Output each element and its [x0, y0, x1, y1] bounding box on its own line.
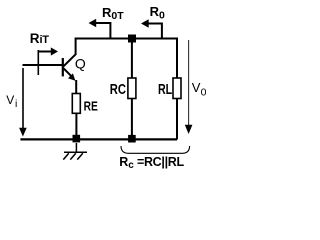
svg-text:RiT: RiT	[30, 31, 49, 46]
ground	[63, 143, 87, 160]
wire RL bottom	[176, 99, 178, 140]
arrow R0	[141, 19, 162, 38]
arrow Vi	[19, 68, 27, 137]
junction RC-ground node	[128, 135, 136, 143]
brace Rc span	[121, 146, 190, 153]
wire ground rail	[20, 138, 177, 140]
resistor RE	[72, 94, 80, 114]
resistor RC	[128, 78, 136, 99]
svg-text:RC: RC	[110, 82, 127, 98]
transistor Q1 emitter	[64, 68, 74, 78]
transistor Q1 emitter arrowhead	[68, 73, 75, 80]
wire RC bottom	[131, 99, 133, 140]
transistor Q1 collector + top rail	[64, 39, 178, 79]
node RiT measurement tick	[37, 50, 39, 75]
wire emitter to RE	[75, 80, 77, 94]
junction top node	[128, 35, 136, 43]
svg-text:RE: RE	[84, 99, 98, 114]
arrow R0T	[89, 19, 111, 39]
svg-text:RL: RL	[158, 82, 172, 98]
wire input base	[23, 64, 63, 66]
resistor RL	[173, 78, 181, 99]
transistor Q1 base bar	[62, 58, 64, 76]
svg-text:Q: Q	[75, 56, 86, 72]
wire RE to ground rail	[75, 113, 77, 139]
wire RC top	[131, 42, 133, 78]
junction emitter-ground node	[73, 135, 81, 143]
arrow V0 output	[185, 40, 193, 134]
arrow RiT	[38, 47, 58, 55]
